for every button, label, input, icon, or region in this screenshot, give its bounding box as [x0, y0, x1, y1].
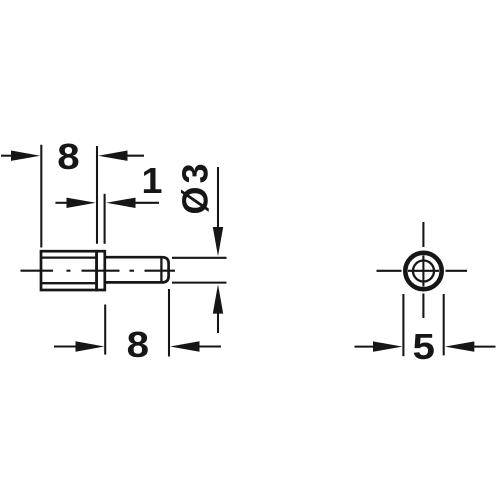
svg-text:8: 8 [57, 137, 79, 178]
svg-text:8: 8 [127, 325, 149, 366]
svg-text:1: 1 [141, 161, 162, 201]
svg-text:Ø3: Ø3 [175, 160, 216, 214]
svg-text:5: 5 [412, 327, 434, 368]
